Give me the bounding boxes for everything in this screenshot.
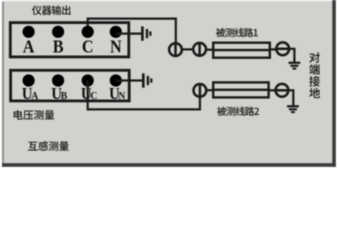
svg-text:N: N [110,37,122,57]
terminal N of instrument output [110,26,123,57]
terminal C of instrument output [82,26,94,57]
wire P4 to tested line 2 [206,89,213,91]
label "互感测量" (mutual inductance measurement) [28,141,69,151]
svg-text:B: B [53,37,64,57]
label "对端接地" (far end grounded), vertical [309,52,320,98]
terminal UA of voltage measurement [22,74,39,103]
connector P5 at tested line 2 far end (pass-through connector: circle with horizontal diameter) [276,84,289,97]
connector P1 on tested line 1 feed (pass-through connector: circle with vertical diameter) [169,43,182,56]
svg-text:A: A [31,91,38,103]
wire from terminal N to ground [116,32,142,34]
terminal UN of voltage measurement [109,74,126,103]
wire from terminal UN to ground [116,79,142,81]
tested line 2 (cable under test: rectangle with core line) [213,82,268,97]
svg-text:B: B [61,91,68,103]
terminal UB of voltage measurement [51,74,67,103]
connector P3 at tested line 1 far end (pass-through connector: circle with horizontal diameter) [276,42,289,55]
box: voltage measurement terminal block UA UB UC UN [11,70,130,101]
connector P4 at tested line 2 near end (pass-through connector: circle with vertical diameter) [194,84,207,97]
wire from terminal C up and across to tested line 1 [88,19,176,44]
label "仪器输出" (instrument output) [32,5,70,15]
wire P3 to far-end ground of line 1 [289,49,294,63]
box: instrument output terminal block A B C N [10,23,129,57]
svg-text:C: C [82,37,94,57]
terminal B of instrument output [52,26,64,57]
ground G4, far end of tested line 2 (earth ground) [287,106,299,112]
wire P1 to P2 [182,48,193,50]
terminal A of instrument output [23,26,36,57]
label "电压测量" (voltage measurement) [14,110,55,120]
ground G3, far end of tested line 1 (earth ground) [289,63,301,69]
connector P2 at tested line 1 near end (pass-through connector: circle with vertical diameter) [193,43,206,56]
wire tested line 1 to P3 [270,48,277,50]
label "被测线路1" (tested line 1) [216,28,258,37]
diagram panel background with 3D frame [0,0,338,171]
wire from terminal UC down and across to tested line 2 [88,81,200,110]
wire tested line 2 to P5 [269,89,276,91]
svg-text:C: C [90,91,97,103]
ground G1 at terminal N (earth ground, rotated facing right) [142,26,150,40]
svg-text:A: A [23,37,35,57]
wire P2 to tested line 1 [206,49,214,51]
terminal UC of voltage measurement [81,74,97,103]
label "被测线路2" (tested line 2) [217,107,259,116]
wire P5 to far-end ground of line 2 [288,90,293,106]
svg-text:N: N [118,91,125,103]
ground G2 at terminal UN (earth ground, rotated facing right) [143,73,151,87]
tested line 1 (cable under test: rectangle with core line) [213,43,270,58]
